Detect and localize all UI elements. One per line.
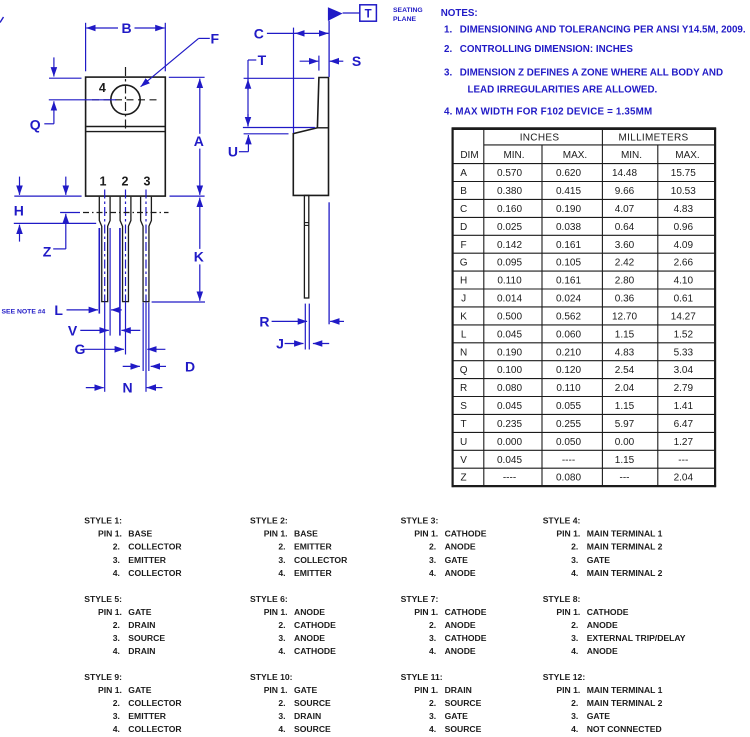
svg-text:Q: Q xyxy=(460,365,468,376)
svg-text:1.15: 1.15 xyxy=(615,401,635,412)
svg-text:4.: 4. xyxy=(571,646,578,656)
svg-text:2.: 2. xyxy=(278,698,285,708)
svg-text:0.562: 0.562 xyxy=(556,312,581,323)
svg-text:---: --- xyxy=(620,473,630,484)
svg-text:STYLE 9:: STYLE 9: xyxy=(84,672,122,682)
svg-text:0.235: 0.235 xyxy=(497,419,522,430)
svg-text:15.75: 15.75 xyxy=(671,168,696,179)
svg-text:ANODE: ANODE xyxy=(587,620,618,630)
svg-text:4: 4 xyxy=(99,81,106,95)
side lead tick xyxy=(304,222,308,224)
svg-text:N: N xyxy=(123,380,133,396)
svg-text:14.27: 14.27 xyxy=(671,312,696,323)
svg-text:4.83: 4.83 xyxy=(674,204,694,215)
svg-text:1.15: 1.15 xyxy=(615,455,635,466)
dimension S xyxy=(318,56,320,71)
svg-text:COLLECTOR: COLLECTOR xyxy=(128,724,182,734)
svg-text:H: H xyxy=(460,276,467,287)
svg-text:PIN 1.: PIN 1. xyxy=(264,529,288,539)
svg-text:PIN 1.: PIN 1. xyxy=(98,607,122,617)
svg-text:2.79: 2.79 xyxy=(674,383,694,394)
svg-text:4.10: 4.10 xyxy=(674,276,694,287)
svg-text:2.04: 2.04 xyxy=(615,383,635,394)
svg-text:T: T xyxy=(461,419,467,430)
svg-text:2.: 2. xyxy=(429,620,436,630)
front view body outline xyxy=(86,77,166,196)
svg-text:PIN 1.: PIN 1. xyxy=(264,685,288,695)
svg-text:PIN 1.: PIN 1. xyxy=(414,529,438,539)
svg-text:3.: 3. xyxy=(429,555,436,565)
svg-text:STYLE 7:: STYLE 7: xyxy=(401,594,439,604)
svg-text:0.025: 0.025 xyxy=(497,222,522,233)
svg-text:CATHODE: CATHODE xyxy=(445,529,487,539)
svg-text:4.: 4. xyxy=(113,568,120,578)
svg-text:0.014: 0.014 xyxy=(497,294,522,305)
svg-text:0.96: 0.96 xyxy=(674,222,694,233)
svg-text:GATE: GATE xyxy=(587,555,611,565)
svg-text:PIN 1.: PIN 1. xyxy=(414,607,438,617)
svg-text:0.190: 0.190 xyxy=(497,347,522,358)
svg-text:ANODE: ANODE xyxy=(445,646,476,656)
svg-text:MILLIMETERS: MILLIMETERS xyxy=(619,133,689,144)
svg-text:0.045: 0.045 xyxy=(497,401,522,412)
svg-text:STYLE 5:: STYLE 5: xyxy=(84,594,122,604)
svg-text:Z: Z xyxy=(43,243,52,259)
svg-text:----: ---- xyxy=(562,455,575,466)
svg-text:1.15: 1.15 xyxy=(615,329,635,340)
svg-text:0.110: 0.110 xyxy=(497,276,522,287)
svg-text:2.: 2. xyxy=(571,542,578,552)
svg-text:N: N xyxy=(460,347,467,358)
edge artifact mark xyxy=(0,17,4,23)
svg-text:DRAIN: DRAIN xyxy=(294,711,321,721)
svg-text:Z: Z xyxy=(461,473,467,484)
svg-text:3: 3 xyxy=(144,174,151,188)
svg-text:BASE: BASE xyxy=(128,529,152,539)
svg-text:ANODE: ANODE xyxy=(445,568,476,578)
svg-text:CATHODE: CATHODE xyxy=(445,633,487,643)
svg-text:PIN 1.: PIN 1. xyxy=(556,685,580,695)
svg-text:MAIN TERMINAL 1: MAIN TERMINAL 1 xyxy=(587,685,663,695)
svg-text:STYLE 8:: STYLE 8: xyxy=(543,594,581,604)
svg-text:3.60: 3.60 xyxy=(615,240,635,251)
svg-text:COLLECTOR: COLLECTOR xyxy=(128,698,182,708)
svg-text:DRAIN: DRAIN xyxy=(128,646,155,656)
svg-text:STYLE 11:: STYLE 11: xyxy=(401,672,443,682)
svg-text:3.: 3. xyxy=(113,633,120,643)
front view tab boundary lines xyxy=(86,126,165,128)
svg-text:0.500: 0.500 xyxy=(497,312,522,323)
svg-text:1. DIMENSIONING AND TOLERANCI: 1. DIMENSIONING AND TOLERANCING PER ANSI… xyxy=(444,25,746,36)
svg-text:0.380: 0.380 xyxy=(497,186,522,197)
svg-text:CATHODE: CATHODE xyxy=(587,607,629,617)
svg-text:0.160: 0.160 xyxy=(497,204,522,215)
dimension K xyxy=(199,198,201,249)
svg-text:1: 1 xyxy=(100,174,107,188)
svg-text:3. DIMENSION Z DEFINES A ZONE: 3. DIMENSION Z DEFINES A ZONE WHERE ALL … xyxy=(444,67,723,78)
svg-text:---: --- xyxy=(678,455,688,466)
svg-text:GATE: GATE xyxy=(128,685,152,695)
svg-text:2.80: 2.80 xyxy=(615,276,635,287)
svg-text:----: ---- xyxy=(503,473,516,484)
svg-text:0.120: 0.120 xyxy=(556,365,581,376)
svg-text:STYLE 10:: STYLE 10: xyxy=(250,672,293,682)
svg-text:0.00: 0.00 xyxy=(615,437,635,448)
svg-text:4.83: 4.83 xyxy=(615,347,635,358)
side view lead xyxy=(304,195,308,298)
svg-text:SOURCE: SOURCE xyxy=(128,633,165,643)
svg-text:12.70: 12.70 xyxy=(612,312,637,323)
svg-text:EXTERNAL TRIP/DELAY: EXTERNAL TRIP/DELAY xyxy=(587,633,686,643)
svg-text:2.: 2. xyxy=(429,542,436,552)
svg-text:4.: 4. xyxy=(278,724,285,734)
svg-text:2.: 2. xyxy=(278,620,285,630)
svg-text:SOURCE: SOURCE xyxy=(445,724,482,734)
svg-text:COLLECTOR: COLLECTOR xyxy=(294,555,348,565)
svg-text:0.080: 0.080 xyxy=(497,383,522,394)
svg-text:0.095: 0.095 xyxy=(497,258,522,269)
svg-text:U: U xyxy=(228,143,238,159)
dimension table xyxy=(452,127,716,130)
svg-text:0.038: 0.038 xyxy=(556,222,581,233)
svg-text:2.: 2. xyxy=(113,698,120,708)
dimension B xyxy=(85,23,87,72)
extension lines below leads xyxy=(98,228,100,314)
svg-text:0.61: 0.61 xyxy=(674,294,694,305)
svg-text:MAIN TERMINAL 2: MAIN TERMINAL 2 xyxy=(587,542,663,552)
svg-text:PLANE: PLANE xyxy=(393,16,417,23)
svg-text:STYLE 6:: STYLE 6: xyxy=(250,594,288,604)
svg-text:GATE: GATE xyxy=(294,685,318,695)
svg-text:ANODE: ANODE xyxy=(587,646,618,656)
svg-text:4.07: 4.07 xyxy=(615,204,635,215)
svg-text:PIN 1.: PIN 1. xyxy=(98,685,122,695)
svg-text:0.210: 0.210 xyxy=(556,347,581,358)
svg-text:1.52: 1.52 xyxy=(674,329,694,340)
svg-text:2.66: 2.66 xyxy=(674,258,694,269)
svg-text:V: V xyxy=(68,322,78,338)
svg-text:U: U xyxy=(460,437,467,448)
svg-text:0.100: 0.100 xyxy=(497,365,522,376)
svg-text:GATE: GATE xyxy=(587,711,611,721)
side view body outline xyxy=(293,78,328,196)
svg-text:0.190: 0.190 xyxy=(556,204,581,215)
svg-text:4.: 4. xyxy=(278,568,285,578)
svg-text:3.04: 3.04 xyxy=(674,365,694,376)
seating plane flag triangle xyxy=(328,7,343,21)
svg-text:SEE NOTE #4: SEE NOTE #4 xyxy=(2,308,46,315)
svg-text:0.142: 0.142 xyxy=(497,240,522,251)
svg-text:9.66: 9.66 xyxy=(615,186,635,197)
svg-text:J: J xyxy=(276,336,284,352)
svg-text:STYLE 3:: STYLE 3: xyxy=(401,516,439,526)
svg-text:SOURCE: SOURCE xyxy=(294,724,331,734)
dimension H xyxy=(14,195,81,197)
svg-text:2.: 2. xyxy=(113,620,120,630)
svg-text:14.48: 14.48 xyxy=(612,168,637,179)
svg-text:ANODE: ANODE xyxy=(294,607,325,617)
dimension Q xyxy=(49,77,82,79)
svg-text:0.000: 0.000 xyxy=(497,437,522,448)
svg-text:G: G xyxy=(460,258,468,269)
svg-text:ANODE: ANODE xyxy=(294,633,325,643)
hole horizontal centerline xyxy=(92,99,159,101)
svg-text:3.: 3. xyxy=(278,711,285,721)
svg-text:2.04: 2.04 xyxy=(674,473,694,484)
dimension U xyxy=(244,133,289,135)
svg-text:COLLECTOR: COLLECTOR xyxy=(128,568,182,578)
dimension T side xyxy=(248,59,256,61)
svg-text:STYLE 1:: STYLE 1: xyxy=(84,516,122,526)
svg-text:2.: 2. xyxy=(113,542,120,552)
svg-text:NOTES:: NOTES: xyxy=(441,8,478,19)
svg-text:3.: 3. xyxy=(429,633,436,643)
svg-text:H: H xyxy=(14,203,24,219)
svg-text:PIN 1.: PIN 1. xyxy=(264,607,288,617)
svg-text:2.: 2. xyxy=(571,698,578,708)
svg-text:2: 2 xyxy=(122,174,129,188)
svg-text:DIM: DIM xyxy=(460,150,478,161)
seating plane flag box T xyxy=(360,5,377,21)
svg-text:PIN 1.: PIN 1. xyxy=(98,529,122,539)
svg-text:S: S xyxy=(352,53,361,69)
svg-text:0.105: 0.105 xyxy=(556,258,581,269)
svg-text:EMITTER: EMITTER xyxy=(294,568,333,578)
svg-text:2.54: 2.54 xyxy=(615,365,635,376)
dimension F leader xyxy=(199,37,210,39)
svg-text:J: J xyxy=(461,294,466,305)
svg-text:0.024: 0.024 xyxy=(556,294,581,305)
svg-text:2.42: 2.42 xyxy=(615,258,635,269)
svg-text:4.: 4. xyxy=(571,724,578,734)
svg-text:3.: 3. xyxy=(278,633,285,643)
svg-text:3.: 3. xyxy=(571,633,578,643)
lead shoulder dash-dot line xyxy=(83,212,169,214)
svg-text:0.620: 0.620 xyxy=(556,168,581,179)
svg-text:0.161: 0.161 xyxy=(556,276,581,287)
svg-text:BASE: BASE xyxy=(294,529,318,539)
svg-text:A: A xyxy=(194,133,204,149)
svg-text:EMITTER: EMITTER xyxy=(128,711,167,721)
seating plane line xyxy=(328,21,330,77)
svg-text:4.: 4. xyxy=(113,724,120,734)
hole vertical centerline xyxy=(125,67,127,132)
svg-text:0.055: 0.055 xyxy=(556,401,581,412)
svg-text:C: C xyxy=(460,204,467,215)
svg-text:0.080: 0.080 xyxy=(556,473,581,484)
svg-text:V: V xyxy=(460,455,467,466)
svg-text:0.045: 0.045 xyxy=(497,329,522,340)
svg-text:2.: 2. xyxy=(571,620,578,630)
svg-text:0.255: 0.255 xyxy=(556,419,581,430)
svg-text:PIN 1.: PIN 1. xyxy=(556,607,580,617)
svg-text:B: B xyxy=(460,186,467,197)
svg-text:L: L xyxy=(461,329,467,340)
svg-text:3.: 3. xyxy=(571,555,578,565)
svg-text:MAIN TERMINAL 1: MAIN TERMINAL 1 xyxy=(587,529,663,539)
svg-text:MAX.: MAX. xyxy=(563,150,587,161)
svg-text:PIN 1.: PIN 1. xyxy=(556,529,580,539)
pins front view outlines xyxy=(99,197,110,302)
svg-text:MIN.: MIN. xyxy=(503,150,524,161)
svg-text:3.: 3. xyxy=(429,711,436,721)
svg-text:Q: Q xyxy=(30,117,41,133)
svg-text:0.110: 0.110 xyxy=(556,383,581,394)
svg-text:T: T xyxy=(258,52,267,68)
svg-text:0.64: 0.64 xyxy=(615,222,635,233)
svg-text:S: S xyxy=(460,401,467,412)
svg-text:INCHES: INCHES xyxy=(520,133,560,144)
pin centerlines dashed xyxy=(104,190,106,302)
svg-text:0.570: 0.570 xyxy=(497,168,522,179)
svg-text:1.27: 1.27 xyxy=(674,437,694,448)
svg-text:2.: 2. xyxy=(429,698,436,708)
mounting hole xyxy=(111,85,140,114)
svg-text:4.: 4. xyxy=(113,646,120,656)
svg-text:MIN.: MIN. xyxy=(621,150,642,161)
seating plane flag leader xyxy=(343,12,360,14)
svg-text:4.: 4. xyxy=(571,568,578,578)
svg-text:R: R xyxy=(460,383,467,394)
svg-text:STYLE 2:: STYLE 2: xyxy=(250,516,288,526)
svg-text:EMITTER: EMITTER xyxy=(294,542,333,552)
svg-text:DRAIN: DRAIN xyxy=(445,685,472,695)
svg-text:4.: 4. xyxy=(278,646,285,656)
side view notch line xyxy=(317,127,328,129)
svg-text:D: D xyxy=(460,222,467,233)
svg-text:ANODE: ANODE xyxy=(445,542,476,552)
svg-text:1.41: 1.41 xyxy=(674,401,694,412)
svg-text:SOURCE: SOURCE xyxy=(445,698,482,708)
svg-text:3.: 3. xyxy=(113,555,120,565)
svg-text:4.: 4. xyxy=(429,724,436,734)
svg-text:4.: 4. xyxy=(429,646,436,656)
svg-text:NOT CONNECTED: NOT CONNECTED xyxy=(587,724,662,734)
svg-text:GATE: GATE xyxy=(445,711,469,721)
svg-text:MAIN TERMINAL 2: MAIN TERMINAL 2 xyxy=(587,698,663,708)
dimension A xyxy=(169,76,205,78)
svg-text:CATHODE: CATHODE xyxy=(294,646,336,656)
svg-text:GATE: GATE xyxy=(128,607,152,617)
svg-text:F: F xyxy=(461,240,467,251)
svg-text:STYLE 4:: STYLE 4: xyxy=(543,516,581,526)
svg-text:C: C xyxy=(254,25,264,41)
svg-text:T: T xyxy=(365,9,372,21)
svg-text:STYLE 12:: STYLE 12: xyxy=(543,672,586,682)
svg-text:COLLECTOR: COLLECTOR xyxy=(128,542,182,552)
svg-text:SOURCE: SOURCE xyxy=(294,698,331,708)
svg-text:LEAD IRREGULARITIES ARE ALLOWE: LEAD IRREGULARITIES ARE ALLOWED. xyxy=(468,84,658,95)
svg-text:10.53: 10.53 xyxy=(671,186,696,197)
svg-text:A: A xyxy=(460,168,467,179)
svg-text:MAIN TERMINAL 2: MAIN TERMINAL 2 xyxy=(587,568,663,578)
svg-text:CATHODE: CATHODE xyxy=(294,620,336,630)
svg-text:L: L xyxy=(54,302,63,318)
svg-text:3.: 3. xyxy=(278,555,285,565)
svg-text:4.09: 4.09 xyxy=(674,240,694,251)
side lead extension lines xyxy=(304,304,306,350)
svg-text:K: K xyxy=(194,249,204,265)
svg-text:ANODE: ANODE xyxy=(445,620,476,630)
svg-text:3.: 3. xyxy=(113,711,120,721)
svg-text:B: B xyxy=(121,20,131,36)
svg-text:GATE: GATE xyxy=(445,555,469,565)
svg-text:SEATING: SEATING xyxy=(393,7,423,14)
svg-text:EMITTER: EMITTER xyxy=(128,555,167,565)
svg-text:0.050: 0.050 xyxy=(556,437,581,448)
svg-text:D: D xyxy=(185,358,195,374)
svg-text:6.47: 6.47 xyxy=(674,419,694,430)
svg-text:3.: 3. xyxy=(571,711,578,721)
svg-text:0.415: 0.415 xyxy=(556,186,581,197)
svg-text:0.36: 0.36 xyxy=(615,294,635,305)
svg-text:DRAIN: DRAIN xyxy=(128,620,155,630)
svg-text:PIN 1.: PIN 1. xyxy=(414,685,438,695)
svg-text:CATHODE: CATHODE xyxy=(445,607,487,617)
svg-text:R: R xyxy=(259,313,269,329)
dimension Z xyxy=(65,214,67,249)
svg-text:F: F xyxy=(211,31,220,47)
svg-text:2.: 2. xyxy=(278,542,285,552)
svg-text:2. CONTROLLING DIMENSION: INC: 2. CONTROLLING DIMENSION: INCHES xyxy=(444,44,633,55)
svg-text:0.161: 0.161 xyxy=(556,240,581,251)
svg-text:0.060: 0.060 xyxy=(556,329,581,340)
svg-text:4. MAX WIDTH FOR F102 DEVICE =: 4. MAX WIDTH FOR F102 DEVICE = 1.35MM xyxy=(444,107,652,118)
svg-text:0.045: 0.045 xyxy=(497,455,522,466)
svg-text:K: K xyxy=(460,312,467,323)
svg-text:MAX.: MAX. xyxy=(675,150,699,161)
svg-text:5.97: 5.97 xyxy=(615,419,635,430)
svg-text:4.: 4. xyxy=(429,568,436,578)
svg-text:5.33: 5.33 xyxy=(674,347,694,358)
